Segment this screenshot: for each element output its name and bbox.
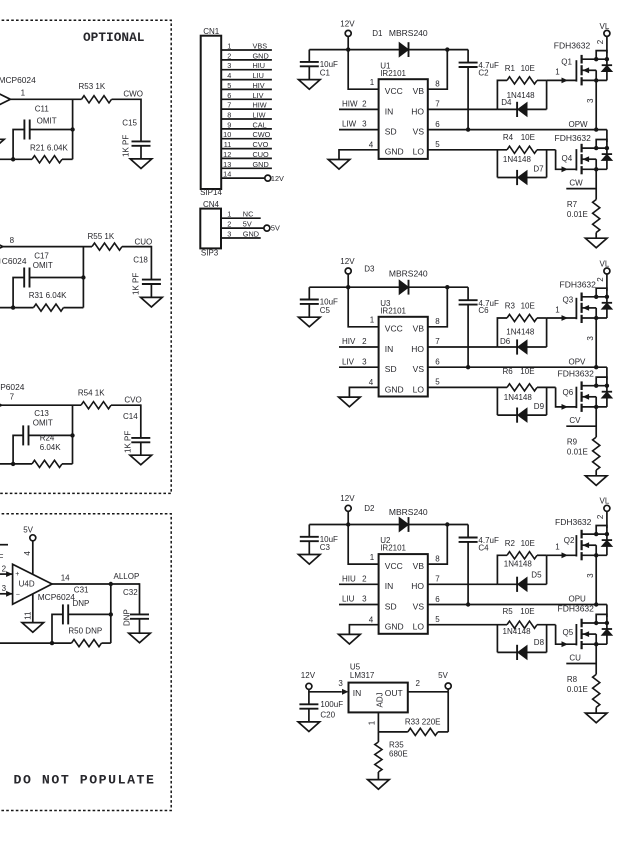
ground C3 [299, 555, 321, 565]
wire R31 to junction [64, 307, 84, 309]
svg-text:6: 6 [435, 358, 440, 367]
ground C15 [130, 159, 152, 169]
svg-text:5V: 5V [23, 525, 33, 534]
svg-text:C18: C18 [133, 255, 148, 264]
svg-text:FDH3632: FDH3632 [555, 133, 592, 143]
svg-text:R33 220E: R33 220E [405, 718, 441, 727]
svg-text:IN: IN [353, 688, 362, 698]
svg-text:VL: VL [600, 497, 610, 506]
wire input HIW [339, 100, 379, 110]
svg-text:1: 1 [21, 88, 26, 97]
label Q3 FDH3632 top [560, 280, 597, 305]
svg-text:LIV: LIV [253, 91, 264, 100]
ground U3 pin 4 [339, 397, 361, 407]
arrow input pin2 [6, 571, 13, 577]
svg-text:LIU: LIU [253, 71, 264, 80]
svg-text:HO: HO [411, 106, 424, 116]
IC U2 IR2101 body [379, 536, 428, 634]
wire gate Q2 [547, 543, 577, 559]
junction dot output U4D [109, 582, 113, 586]
svg-text:5V: 5V [438, 671, 448, 680]
svg-text:IN: IN [385, 106, 394, 116]
svg-text:2: 2 [362, 574, 367, 583]
wire VB pin 8 to rail [428, 50, 448, 90]
wire R54 to CVO corner [111, 404, 141, 406]
wire feedback junction row3 [72, 405, 74, 464]
resistor R35 680E [375, 732, 408, 780]
svg-text:IR2101: IR2101 [380, 544, 406, 553]
ground C1 [299, 80, 321, 90]
svg-text:D7: D7 [533, 165, 544, 174]
svg-text:HO: HO [411, 344, 424, 354]
svg-text:2: 2 [362, 100, 367, 109]
power 5V at CN4 pin2 [264, 224, 280, 233]
wire C17 left branch [13, 278, 24, 308]
svg-text:C14: C14 [123, 412, 138, 421]
svg-text:10E: 10E [521, 133, 535, 142]
svg-text:OMIT: OMIT [33, 261, 53, 270]
svg-text:4: 4 [369, 378, 374, 387]
svg-text:0.01E: 0.01E [567, 210, 588, 219]
wire OPV to Q6 drain [606, 367, 608, 380]
svg-text:R2: R2 [505, 539, 516, 548]
svg-text:12V: 12V [340, 494, 355, 503]
svg-text:13: 13 [223, 160, 231, 169]
wire feedback junction row1 [72, 99, 74, 159]
svg-text:3: 3 [586, 573, 595, 578]
power 12V at CN1 pin14 [265, 174, 284, 183]
junction dot C31 right [109, 612, 113, 616]
wire HO pin 7 [428, 583, 498, 585]
wire 12V rail [309, 286, 468, 288]
svg-text:12V: 12V [301, 671, 316, 680]
wire 12V to rail [347, 274, 349, 287]
svg-text:LO: LO [413, 622, 425, 632]
wire Q4 source to CW [595, 169, 597, 199]
wire input pin3 [0, 593, 13, 595]
wire C31 left branch [52, 614, 63, 643]
svg-text:C17: C17 [34, 251, 49, 260]
svg-text:SD: SD [385, 601, 397, 611]
svg-text:10: 10 [223, 130, 231, 139]
resistor R6 10E gate bottom [428, 367, 556, 391]
ground symbol row1 (cut at left edge) [0, 139, 4, 149]
wire VCC from rail [348, 50, 378, 90]
svg-text:CVO: CVO [124, 395, 141, 404]
svg-text:C31: C31 [74, 586, 89, 595]
svg-text:D2: D2 [364, 504, 375, 513]
resistor R54 1K [78, 389, 111, 409]
svg-text:8: 8 [435, 554, 440, 563]
ground C32 [129, 633, 151, 643]
power 12V LM317 [301, 671, 316, 689]
resistor R33 220E [378, 718, 448, 736]
svg-text:VB: VB [413, 86, 425, 96]
capacitor C31 DNP [63, 586, 89, 625]
svg-text:CV: CV [569, 416, 581, 425]
svg-text:GND: GND [243, 230, 259, 239]
svg-text:OPV: OPV [569, 357, 587, 366]
svg-text:5: 5 [435, 140, 440, 149]
node CU label and stub [566, 654, 596, 664]
CN1 pin 13 wire and labels (GND) [221, 160, 272, 169]
svg-text:8: 8 [435, 317, 440, 326]
CN1 pin 7 wire and labels (HIW) [221, 101, 272, 110]
label Q5 FDH3632 bottom [558, 603, 595, 637]
svg-text:3: 3 [2, 584, 7, 593]
resistor R21 6.04K [30, 144, 68, 163]
svg-text:680E: 680E [389, 749, 408, 758]
svg-text:12V: 12V [340, 19, 355, 28]
svg-text:7: 7 [435, 337, 440, 346]
svg-text:IN: IN [385, 581, 394, 591]
svg-text:3: 3 [362, 595, 367, 604]
wire input LIW [339, 120, 379, 130]
capacitor C11 OMIT [24, 104, 56, 139]
svg-text:7: 7 [435, 575, 440, 584]
svg-text:VL: VL [600, 259, 610, 268]
wire gate Q5 [556, 625, 577, 647]
svg-text:10E: 10E [520, 607, 534, 616]
svg-text:SIP3: SIP3 [201, 248, 219, 257]
wire 5V to op-amp pin4 [32, 541, 34, 575]
CN1 pin 8 wire and labels (LIW) [221, 111, 272, 120]
svg-text:9: 9 [227, 120, 231, 129]
wire CWO down to C15 [140, 99, 142, 142]
capacitor C6 4.7uF bootstrap [459, 287, 499, 367]
svg-text:R21 6.04K: R21 6.04K [30, 144, 68, 153]
arrow input pin3 [6, 591, 13, 597]
junction dot VB rail [445, 522, 449, 526]
svg-text:2: 2 [596, 39, 605, 44]
svg-text:5: 5 [435, 615, 440, 624]
dashed box OPTIONAL section border [0, 20, 171, 493]
svg-text:0.01E: 0.01E [567, 685, 588, 694]
wire input LIU [339, 595, 379, 605]
svg-text:C2: C2 [478, 69, 489, 78]
wire GND pin 4 [349, 615, 378, 634]
op-amp U4D [13, 564, 52, 604]
wire VCC from rail [348, 525, 378, 565]
wire CUO down to C18 [150, 246, 152, 280]
svg-text:7: 7 [227, 101, 231, 110]
pin 11 wire to ground [32, 594, 34, 623]
svg-text:R31 6.04K: R31 6.04K [29, 291, 67, 300]
wire ALLOP down to C32 [139, 583, 141, 614]
svg-text:5: 5 [435, 378, 440, 387]
junction dot C2-VS [466, 127, 470, 131]
capacitor C18 [133, 255, 161, 284]
capacitor C13 OMIT [23, 409, 53, 445]
svg-text:FDH3632: FDH3632 [558, 603, 595, 613]
svg-text:SD: SD [385, 127, 397, 137]
svg-text:C32: C32 [123, 588, 138, 597]
svg-text:MBRS240: MBRS240 [389, 507, 428, 517]
wire gate Q4 [556, 150, 577, 172]
svg-text:MCP6024: MCP6024 [38, 592, 76, 602]
svg-text:100uF: 100uF [320, 700, 343, 709]
ground C18 [141, 297, 163, 307]
wire feedback to edge row2 [0, 307, 34, 309]
svg-text:CVO: CVO [253, 140, 269, 149]
resistor R2 10E gate top [497, 539, 546, 585]
svg-text:14: 14 [61, 574, 70, 583]
IC U5 LM317 body [349, 663, 408, 713]
junction dot source Q3 on OPV [594, 365, 598, 369]
svg-text:VS: VS [413, 364, 425, 374]
resistor R1 10E gate top [497, 64, 546, 110]
transistor Q1 MOSFET top [575, 60, 577, 81]
svg-text:LIW: LIW [253, 111, 266, 120]
svg-text:OMIT: OMIT [37, 116, 57, 125]
svg-text:SD: SD [385, 364, 397, 374]
power 12V U2 block [340, 494, 355, 511]
capacitor C5 10uF [300, 287, 338, 315]
svg-text:4: 4 [23, 551, 32, 556]
stub wire top-left U4D box [0, 544, 8, 546]
svg-text:VL: VL [600, 22, 610, 31]
svg-text:FDH3632: FDH3632 [560, 280, 597, 290]
power 5V U4D [23, 525, 36, 541]
svg-text:Q5: Q5 [563, 628, 574, 637]
svg-text:7: 7 [435, 100, 440, 109]
ground C14 [130, 455, 152, 465]
svg-text:R53 1K: R53 1K [79, 82, 106, 91]
svg-text:C5: C5 [320, 306, 331, 315]
capacitor C2 4.7uF bootstrap [459, 50, 499, 130]
svg-text:CWO: CWO [123, 90, 143, 99]
svg-text:D4: D4 [501, 98, 512, 107]
svg-text:C4: C4 [478, 544, 489, 553]
wire gate Q3 [547, 305, 577, 321]
diode D6 1N4148 top [497, 318, 546, 355]
resistor R55 1K [88, 232, 123, 250]
svg-text:R4: R4 [503, 133, 514, 142]
svg-text:CWO: CWO [253, 130, 271, 139]
wire C17 right to junction [30, 277, 84, 279]
svg-text:HIU: HIU [342, 574, 356, 583]
wire output down to C31/R50 [110, 584, 112, 643]
wire C31 right [68, 613, 111, 615]
svg-text:C13: C13 [34, 409, 49, 418]
svg-text:GND: GND [385, 384, 404, 394]
dashed box DO NOT POPULATE border [0, 514, 171, 811]
svg-text:VS: VS [413, 127, 425, 137]
svg-text:8: 8 [227, 111, 231, 120]
svg-text:11: 11 [23, 611, 32, 620]
CN1 pin 9 wire and labels (CAL) [221, 120, 272, 129]
svg-text:3: 3 [227, 230, 231, 239]
wire VS pin 6 to OPx [428, 358, 607, 368]
transistor Q4 MOSFET bottom [575, 149, 577, 170]
svg-text:SIP14: SIP14 [200, 188, 222, 197]
svg-text:3: 3 [586, 336, 595, 341]
IC U1 IR2101 body [379, 61, 428, 159]
wire 12V to rail [347, 511, 349, 524]
svg-text:C15: C15 [122, 118, 137, 127]
svg-text:D9: D9 [534, 402, 545, 411]
svg-text:D8: D8 [534, 638, 545, 647]
svg-text:1: 1 [370, 78, 375, 87]
svg-text:VB: VB [413, 561, 425, 571]
wire source to OPx [595, 318, 597, 367]
svg-text:C11: C11 [35, 104, 50, 113]
svg-text:D3: D3 [364, 264, 375, 273]
wire Q5 source to CU [595, 644, 597, 674]
CN1 pin 6 wire and labels (LIV) [221, 91, 272, 100]
wire OPU to Q5 drain [606, 605, 608, 618]
ground U4D pin11 [22, 623, 44, 633]
wire VB pin 8 to rail [428, 287, 448, 327]
svg-text:MBRS240: MBRS240 [389, 269, 428, 279]
svg-text:7: 7 [10, 393, 15, 402]
diode D2 MBRS240 [364, 504, 428, 532]
svg-text:R9: R9 [567, 438, 578, 447]
power 12V U3 block [340, 257, 355, 274]
wire feedback to edge row3 [0, 463, 32, 465]
wire VL to drain [606, 36, 608, 53]
resistor R53 1K [79, 82, 112, 103]
svg-text:OMIT: OMIT [33, 419, 53, 428]
wire source to OPx [595, 80, 597, 129]
wire VL to drain [606, 274, 608, 291]
diode D4 1N4148 top [497, 80, 546, 117]
junction dot C2-VS [466, 602, 470, 606]
svg-text:ADJ: ADJ [376, 692, 385, 707]
svg-text:HIU: HIU [253, 61, 266, 70]
capacitor C4 4.7uF bootstrap [459, 525, 499, 605]
wire OUT down to R33 [447, 692, 449, 732]
junction dot C11-R21 right [70, 127, 74, 131]
svg-text:OPW: OPW [569, 120, 589, 129]
wire R53 to CWO corner [112, 98, 142, 100]
svg-text:R3: R3 [505, 302, 516, 311]
svg-text:LIV: LIV [342, 357, 355, 366]
resistor R4 10E gate bottom [428, 133, 556, 154]
power VL U1 block [600, 22, 610, 37]
svg-text:3: 3 [362, 120, 367, 129]
ground R7 [585, 238, 607, 248]
junction dot R50 left [50, 641, 54, 645]
svg-text:1: 1 [555, 305, 560, 314]
power 12V U1 block [340, 19, 355, 36]
wire Q6 source to CV [595, 407, 597, 437]
svg-text:CN4: CN4 [203, 200, 220, 209]
svg-text:−: − [16, 591, 20, 598]
svg-text:FDH3632: FDH3632 [555, 517, 592, 527]
wire input LIV [339, 357, 379, 367]
svg-text:Q2: Q2 [564, 536, 575, 545]
svg-text:1: 1 [555, 543, 560, 552]
svg-text:VCC: VCC [385, 324, 403, 334]
svg-text:C6024: C6024 [2, 256, 27, 266]
junction dot C13 right [70, 433, 74, 437]
svg-text:4: 4 [227, 71, 231, 80]
svg-text:D5: D5 [531, 571, 542, 580]
CN1 pin 12 wire and labels (CUO) [221, 150, 272, 159]
node CW label and stub [566, 179, 596, 189]
capacitor C14 [123, 412, 150, 443]
wire feedback to edge U4D [0, 642, 72, 644]
resistor R5 10E gate bottom [428, 607, 556, 629]
wire 12V rail [309, 524, 468, 526]
wire input pin2 [0, 573, 13, 575]
junction dot R21 left [11, 157, 15, 161]
svg-text:Q6: Q6 [563, 388, 574, 397]
CN1 pin 11 wire and labels (CVO) [221, 140, 272, 149]
svg-text:CW: CW [569, 179, 583, 188]
svg-text:1N4148: 1N4148 [503, 627, 532, 636]
svg-text:2: 2 [227, 51, 231, 60]
svg-text:CU: CU [569, 654, 581, 663]
svg-text:LIU: LIU [342, 595, 355, 604]
resistor R50 DNP [68, 627, 102, 647]
wire GND pin 4 [349, 378, 378, 397]
svg-text:IR2101: IR2101 [380, 306, 406, 315]
svg-text:1K PF: 1K PF [124, 431, 133, 453]
svg-text:C6: C6 [478, 306, 489, 315]
ground R9 [585, 476, 607, 486]
CN1 pin 2 wire and labels (GND) [221, 51, 272, 60]
svg-text:R35: R35 [389, 741, 404, 750]
svg-text:2: 2 [362, 337, 367, 346]
wire R24 to junction [62, 463, 73, 465]
svg-text:DO NOT POPULATE: DO NOT POPULATE [14, 772, 156, 787]
svg-text:GND: GND [253, 160, 269, 169]
wire VCC from rail [348, 287, 378, 327]
wire 12V to IN and C20 [309, 689, 342, 704]
svg-text:10E: 10E [521, 302, 535, 311]
resistor R24 6.04K [32, 434, 62, 468]
svg-text:2: 2 [596, 277, 605, 282]
svg-text:Q3: Q3 [563, 295, 574, 304]
svg-text:HIW: HIW [253, 101, 267, 110]
wire R50 to junction [102, 642, 111, 644]
svg-text:MCP6024: MCP6024 [0, 75, 36, 85]
svg-text:10E: 10E [520, 367, 534, 376]
wire gate Q6 [556, 387, 577, 409]
op-amp output stage row3 (partial) [0, 400, 2, 410]
svg-text:HIV: HIV [342, 337, 356, 346]
junction dot 12V rail [346, 285, 350, 289]
svg-text:C1: C1 [320, 68, 331, 77]
svg-text:6: 6 [435, 120, 440, 129]
connector CN4 body [200, 209, 221, 249]
junction dot VB rail [445, 47, 449, 51]
wire GND pin 4 [339, 140, 379, 159]
svg-text:1K PF: 1K PF [122, 135, 131, 157]
capacitor C32 [123, 588, 149, 619]
svg-text:1N4148: 1N4148 [506, 327, 535, 336]
wire U4D output to ALLOP [52, 583, 140, 585]
wire VB pin 8 to rail [428, 525, 448, 565]
svg-text:D6: D6 [500, 337, 511, 346]
junction dot 12V rail [346, 522, 350, 526]
op-amp U4? output stage (partial at left edge) [0, 93, 10, 105]
wire 12V to rail [347, 36, 349, 49]
ground C5 [299, 317, 321, 327]
svg-text:CUO: CUO [253, 150, 270, 159]
svg-text:HIW: HIW [342, 100, 358, 109]
ground U2 pin 4 [339, 634, 361, 644]
wire C11 left branch [13, 130, 24, 160]
svg-text:VS: VS [413, 601, 425, 611]
svg-text:3: 3 [362, 357, 367, 366]
svg-text:6.04K: 6.04K [40, 443, 62, 452]
svg-text:HO: HO [411, 581, 424, 591]
ground C20 [298, 722, 320, 732]
wire feedback junction row2 [82, 247, 84, 308]
